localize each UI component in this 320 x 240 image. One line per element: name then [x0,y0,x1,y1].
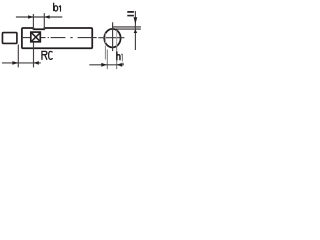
extension line below circle left 2 [106,50,108,70]
dimension b1: extension line right [43,13,45,30]
dimension h right: arrowhead pointing down (below label) [134,17,138,24]
label b1: letter b [53,3,55,11]
label h top-right (rotated): bar 2 [127,15,134,17]
extension line below circle left [104,46,106,60]
dimension RC: extension line right (from magnet box) [33,43,35,68]
end view circle [104,29,120,48]
label b1: subscript 1 [59,5,61,11]
dimension b1: arrowhead pointing right [28,15,33,19]
end view crosshair horizontal [98,37,124,39]
shaft body (side view, with top flat groove) [22,28,92,48]
magnet box X diagonal 2 [31,33,40,42]
centerline dash-dot axis of shaft [23,37,97,39]
dimension b1: arrowhead pointing left [44,15,49,19]
label RC: letter C [49,51,53,59]
shaft tip rectangle (left end) [2,33,16,44]
flat chord right extension below circle [116,47,118,70]
magnet box (square with X) [31,32,41,42]
dimension h right: extension line A (OD tangent) [113,26,141,28]
dimension RC: arrowhead pointing left [34,61,39,65]
flat chord right (inside circle, faint) [116,30,118,46]
label RC: letter R [42,51,47,60]
dimension h right: vertical dimension line [134,11,136,50]
dimension RC: arrowhead pointing right [12,61,18,65]
dimension h bottom: dimension line [89,64,124,66]
end view crosshair vertical [112,22,114,51]
dimension h bottom: arrowhead pointing right [101,63,107,67]
dimension RC: extension line left (from tip rect corner) [17,44,19,67]
label h bottom: digit 1 [121,54,122,62]
label h bottom [117,52,120,61]
magnet box X diagonal 1 [31,33,40,42]
flat chord left (inside circle, faint) [104,33,106,43]
dimension h bottom: arrowhead pointing left [117,63,123,67]
dimension b1: dimension line [16,16,62,18]
dimension RC: dimension line [2,62,41,64]
dimension h right: arrowhead pointing up [134,29,138,33]
label h top-right (rotated): bar 1 [127,11,134,13]
label h bottom: base mark [121,63,124,64]
dimension b1: extension line left [32,14,34,30]
dimension h right: extension line B (flat level) [116,28,141,30]
